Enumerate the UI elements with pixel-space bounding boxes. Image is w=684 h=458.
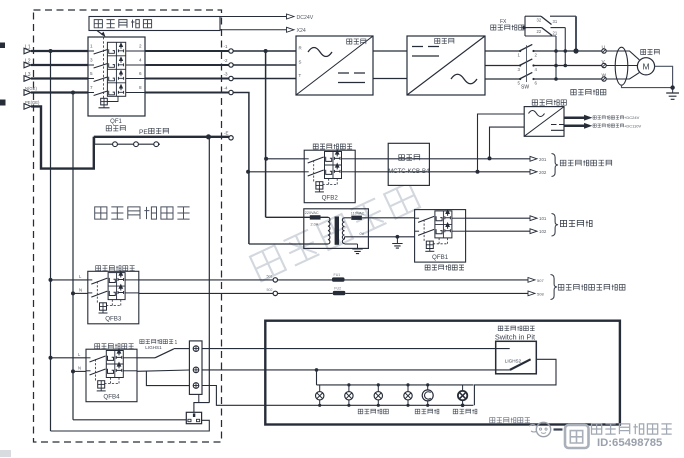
svg-text:PE(GE): PE(GE): [25, 100, 40, 105]
label 井道照明开关1 switch: [140, 340, 144, 344]
svg-text:1: 1: [175, 340, 178, 346]
pointer arrow from label box to QF1: [97, 31, 103, 36]
brake output DC24V arrow: [564, 116, 585, 119]
inverter 逆变器: [407, 36, 485, 95]
svg-text:M: M: [642, 62, 649, 72]
wire: V into motor: [606, 65, 637, 67]
svg-text:8: 8: [139, 85, 142, 90]
svg-text:X24: X24: [297, 28, 306, 34]
svg-text:R: R: [299, 46, 302, 51]
label 轿厢照明和风扇电源: [558, 285, 564, 291]
svg-text:102: 102: [539, 229, 547, 234]
wire: N tee to QFB2: [248, 171, 304, 173]
svg-text:SW: SW: [521, 85, 529, 91]
svg-text:N: N: [78, 366, 81, 371]
svg-text:+DC110V: +DC110V: [624, 123, 641, 128]
svg-text:+DC24V: +DC24V: [624, 115, 640, 120]
margin mark bottom: [0, 450, 11, 457]
wire: strip bottom to pit lower rail: [202, 386, 265, 406]
wire: L1 tee to QFB2: [266, 158, 305, 160]
wire: L3 to rectifier T: [233, 78, 296, 80]
wire: pit switch output loop to lamp rail: [474, 359, 556, 405]
svg-text:7: 7: [90, 85, 93, 90]
svg-text:MCTC-KCB-B4: MCTC-KCB-B4: [388, 169, 430, 175]
wire: motor to ground: [655, 66, 673, 93]
brace car lighting: [551, 275, 558, 300]
wire: QF1 output pole 2: [145, 64, 229, 66]
pit socket symbol 底坑插座: [427, 385, 429, 390]
wire: QF1 output pole 1: [145, 50, 229, 52]
rail riser to N feed: [316, 370, 318, 385]
label box: main breaker detection 主空开检测: [89, 17, 220, 31]
wire: L branch vertical (left riser): [50, 51, 52, 431]
circuit breaker QFB4 (shaft lighting leakage protector): [86, 349, 137, 402]
lamp EL1 井道顶照明: [319, 385, 321, 392]
wire: strip bottom to PE: [198, 394, 200, 402]
svg-text:N(GE): N(GE): [25, 86, 37, 91]
svg-text:PE: PE: [139, 129, 148, 136]
node FX-U b: [564, 49, 568, 53]
svg-text:QF1: QF1: [110, 119, 122, 125]
svg-text:5: 5: [90, 71, 93, 76]
wire: L1 to rectifier R: [233, 50, 296, 52]
wire: N tee to QFB4: [73, 370, 86, 372]
terminal arrow 101: [530, 216, 537, 221]
wire: QFB2 out N to 202 arrow: [355, 171, 531, 173]
wire: PE riser down right side: [208, 137, 210, 403]
wire: QFB3 out N: [139, 292, 273, 294]
wire: sheath to ground: [622, 85, 673, 88]
interface board 接口板 MCTC-KCB-B4: [388, 143, 429, 185]
wire: inverter V out: [485, 65, 520, 67]
terminal strip (3 points): [189, 341, 202, 395]
svg-text:508: 508: [537, 291, 544, 296]
svg-text:3: 3: [90, 58, 93, 63]
wire: W line to motor: [534, 78, 602, 80]
node: ground junction: [670, 85, 674, 89]
node: PE bar to riser junction: [206, 134, 211, 139]
wire: N branch vertical (left riser): [72, 93, 74, 420]
svg-text:FX: FX: [500, 19, 507, 25]
wire: L1 riser down to transformer: [265, 51, 267, 217]
rectifier 整流器: [296, 36, 373, 95]
wire: N to socket: [73, 419, 186, 421]
label 底坑控制开关: [498, 326, 503, 331]
wire: rectifier to inverter DC-: [373, 78, 407, 80]
wire FU1 to arrow: [345, 279, 530, 281]
wire: QFB4 N out: [137, 370, 189, 371]
brake power supply box 抱闸电源盒: [532, 100, 537, 105]
svg-text:22: 22: [537, 29, 542, 34]
svg-text:S: S: [299, 60, 302, 65]
svg-text:T: T: [299, 73, 302, 78]
wire: QFB1 out 2: [466, 230, 531, 232]
wire: strip mid to pit lamp feed: [202, 369, 510, 371]
svg-text:21: 21: [553, 31, 558, 36]
label 门机控制器电源: [560, 160, 566, 166]
cable sheath ellipse: [615, 47, 628, 85]
upper lamp rail: [317, 384, 474, 386]
node input1 tee: [476, 170, 480, 174]
node FX-U c: [573, 48, 578, 53]
svg-text:-3: -3: [224, 71, 228, 76]
label 底坑插座: [415, 409, 420, 414]
wire FU2 to arrow: [345, 292, 529, 294]
svg-text:QFB2: QFB2: [322, 195, 339, 202]
wire: strip top to pit switch: [202, 348, 510, 350]
lower lamp rail: [265, 404, 473, 406]
node: L1 junction to QFB2 riser: [264, 49, 268, 53]
label 运行接触器: [571, 90, 576, 95]
wire: L2 to rectifier S: [233, 64, 296, 66]
wire: QFB2 out L to interface board and 201 arrow: [355, 158, 531, 160]
pit lamp 底坑照明: [462, 385, 464, 391]
margin mark 2: [0, 100, 6, 106]
svg-text:LIGHS1: LIGHS1: [145, 345, 162, 350]
svg-text:1: 1: [90, 44, 93, 49]
svg-text:QFB1: QFB1: [432, 254, 449, 261]
svg-text:QFB3: QFB3: [105, 316, 122, 323]
circuit breaker QFB3 (car lighting leakage protector): [88, 271, 139, 324]
circuit breaker QFB1 (safety circuit leakage protector): [415, 210, 466, 263]
svg-text:2.0A: 2.0A: [311, 222, 319, 226]
svg-text:FU1: FU1: [334, 273, 341, 277]
label 轿厢照明漏保: [96, 266, 101, 271]
wire: V line to motor: [534, 65, 602, 67]
svg-text:202: 202: [539, 170, 547, 175]
socket (machine room outlet): [186, 412, 201, 423]
wire: U into motor: [606, 51, 639, 60]
wire: inverter W out: [485, 78, 520, 80]
wire: QF1 output pole 3: [145, 77, 229, 79]
svg-text:501: 501: [267, 275, 273, 279]
svg-text:DC24V: DC24V: [297, 15, 314, 21]
svg-text:0V: 0V: [360, 232, 365, 236]
PE bar terminal 2: [134, 142, 139, 147]
contactor SW (run contactor): [520, 44, 533, 51]
lamp EL4 井道顶照明: [407, 385, 409, 392]
node FX-W: [554, 77, 558, 81]
terminal arrow 504: [528, 291, 535, 296]
circuit breaker QFB2 (leakage protector): [304, 150, 355, 203]
node FX-V b: [564, 64, 568, 68]
svg-text:110VAC: 110VAC: [351, 212, 365, 216]
lamp EL2 井道顶照明: [348, 385, 350, 392]
wire: L tee to QFB4: [51, 357, 87, 359]
svg-text:N: N: [79, 288, 82, 293]
svg-text:Switch in Pit: Switch in Pit: [495, 332, 535, 341]
svg-text:-2: -2: [224, 58, 228, 63]
svg-text:-4: -4: [224, 85, 228, 90]
wire: N turns down at x=248.9: [233, 93, 249, 245]
wire: N drop to bottom terminal: [146, 371, 189, 386]
svg-text:QFB4: QFB4: [103, 394, 120, 401]
terminal arrow 503: [528, 278, 535, 283]
wire: brake box input 2: [490, 127, 525, 158]
svg-text:502: 502: [267, 288, 273, 292]
label: machine room distribution box 有机房配电箱: [95, 207, 107, 219]
brace door power: [552, 154, 559, 177]
svg-text:FU2: FU2: [334, 287, 341, 291]
svg-text:201: 201: [539, 157, 547, 162]
wire: PE feeder down-right to grounding bar: [31, 106, 94, 168]
pit area box (solid): [265, 321, 620, 425]
label 底坑照明: [453, 409, 458, 414]
node FX-U a: [554, 49, 558, 53]
transformer TC 220/110V: [304, 209, 369, 249]
svg-text:4: 4: [139, 58, 142, 63]
svg-text:6: 6: [139, 71, 142, 76]
wire: FX vertical to U (thick): [575, 16, 577, 51]
signal wire X24: [220, 29, 286, 31]
wire: socket L return loop: [51, 420, 210, 431]
node FX-V a: [554, 64, 558, 68]
node: L1 branch junction: [49, 49, 53, 53]
wire after X1: [278, 279, 333, 281]
wire: PE jog to socket earth pin: [194, 403, 209, 413]
circuit breaker QF1 (main, 4-pole): [88, 37, 145, 116]
terminal arrow 202: [530, 169, 537, 174]
label 井道照明漏保: [95, 344, 100, 349]
wire: U line to motor: [534, 50, 602, 52]
label 电源回路漏保: [313, 144, 318, 149]
svg-text:101: 101: [539, 216, 547, 221]
ground symbol on 0V line: [396, 237, 398, 244]
wire: inverter U out: [485, 50, 520, 52]
wire: brake box input 1: [478, 114, 525, 172]
terminal arrow 102: [530, 229, 537, 234]
svg-text:ID:65498785: ID:65498785: [597, 437, 662, 449]
svg-text:-E: -E: [224, 131, 229, 136]
watermark diagonal forum text: [250, 183, 420, 281]
node input2 tee: [488, 156, 492, 160]
wire: FX vertical to V: [564, 28, 566, 66]
wire: QFB3 out L: [139, 279, 273, 281]
label 井道顶照明: [358, 409, 363, 414]
wire: W into motor: [606, 73, 639, 79]
svg-text:32: 32: [537, 18, 542, 23]
brace safety circuit: [552, 214, 559, 237]
svg-text:2: 2: [139, 44, 142, 49]
motor M 主电机: [637, 58, 654, 75]
PE bar terminal 1: [113, 142, 118, 147]
brake output DC110V arrow: [564, 125, 585, 128]
wire: L tee to QFB3: [51, 279, 89, 281]
margin mark 1: [0, 43, 5, 49]
svg-text:31: 31: [553, 19, 558, 24]
signal wire DC24V: [220, 16, 286, 18]
wire: N tee to QFB3: [73, 292, 88, 294]
wire: switch to terminal strip: [174, 348, 190, 350]
wire: rectifier to inverter DC+: [373, 50, 407, 52]
label 井道底坑位置: [490, 418, 495, 423]
svg-text:507: 507: [537, 278, 544, 283]
ground symbol (motor): [666, 93, 679, 99]
switch box LIGHS2: [496, 341, 537, 374]
label 安全回路漏保: [425, 265, 430, 270]
terminal arrow 201: [530, 156, 537, 161]
svg-text:LIGHS2: LIGHS2: [505, 358, 522, 363]
svg-text:-1: -1: [224, 44, 228, 49]
PE bar terminal 3: [154, 142, 159, 147]
lamp EL3 井道顶照明: [377, 385, 379, 392]
wire after X2: [278, 292, 333, 294]
node: N branch junction: [71, 91, 75, 95]
dashed enclosure boundary of machine room box: [34, 10, 222, 442]
svg-text:220VAC: 220VAC: [305, 211, 319, 215]
wire: QFB1 out 1: [466, 217, 531, 219]
label 安全回路: [560, 220, 566, 226]
wire: FX vertical to W: [555, 36, 557, 79]
watermark logo & id: [536, 422, 550, 436]
switch LIGHS1: [137, 357, 155, 359]
wire: QF1 output pole 4: [145, 91, 229, 93]
